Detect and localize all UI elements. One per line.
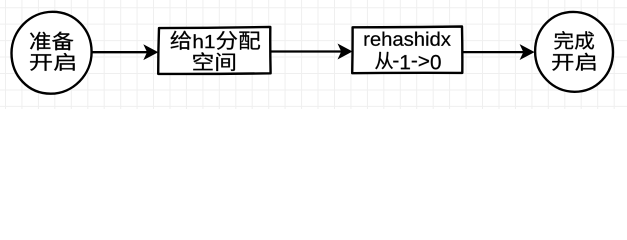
text label N2 line2 空间	[193, 52, 235, 71]
node N3: process rect rehashidx 从-1-&gt;0	[352, 27, 462, 74]
node N1: start ellipse 准备开启	[12, 12, 92, 94]
wire: arrow A3: N3 to N4 shaft	[463, 51, 525, 53]
arrowhead A1: N1 to N2	[144, 45, 157, 59]
node N2: process rect 给h1分配空间	[158, 27, 270, 74]
wire: arrow A1: N1 to N2 shaft	[92, 51, 148, 53]
text label N4 line2 开启	[552, 53, 595, 71]
wire: arrow A2: N2 to N3 shaft	[271, 50, 342, 52]
text label N1 line2 开启	[30, 53, 75, 71]
text label N2 line1 给h1分配	[171, 31, 261, 50]
text label N3 line2 从-1到0 value	[375, 52, 441, 70]
text label N1 line1 准备	[30, 32, 73, 51]
text label N3 line1 rehashidx	[365, 32, 451, 46]
arrowhead A2: N2 to N3	[339, 45, 352, 59]
arrowhead A3: N3 to N4	[521, 45, 534, 59]
node N4: end ellipse 完成开启	[535, 12, 613, 92]
text label N4 line1 完成	[554, 31, 594, 49]
